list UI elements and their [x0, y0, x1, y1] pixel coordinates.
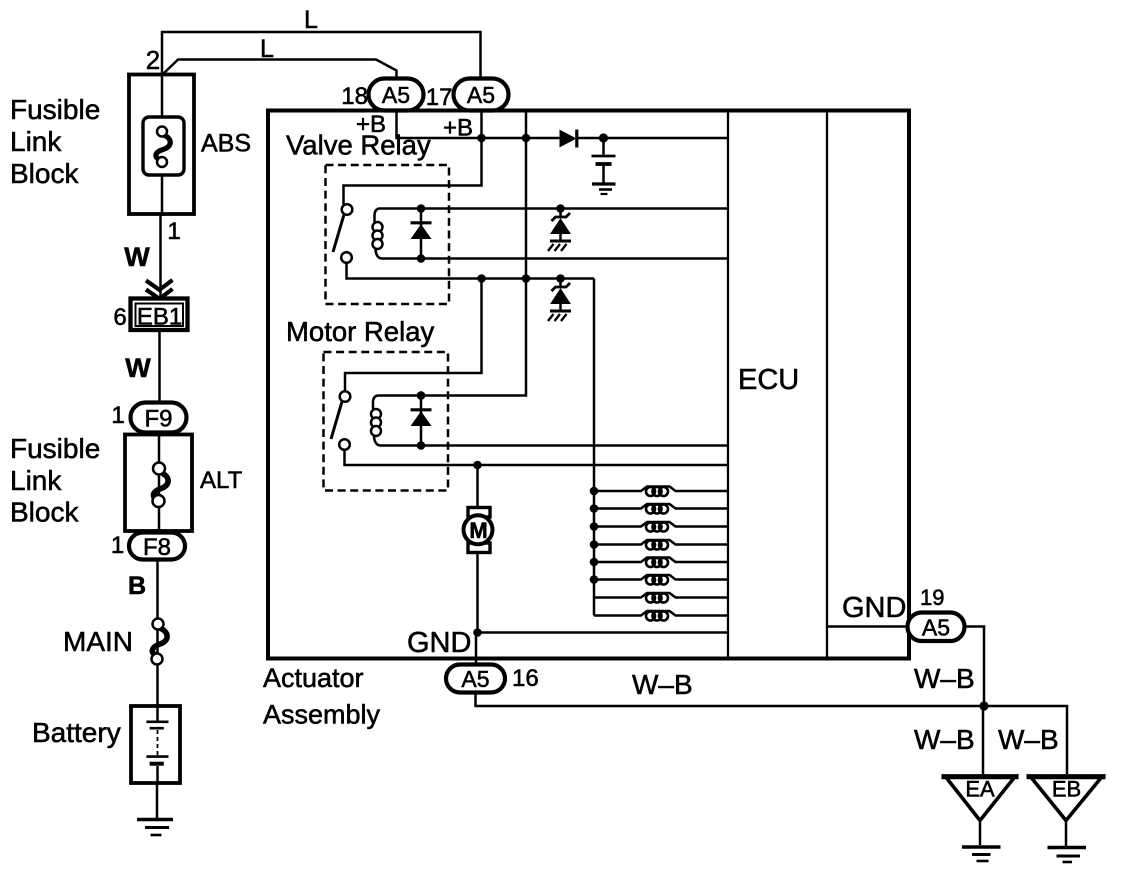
- diode D2 (valve relay): [411, 204, 432, 263]
- ground (capacitor): [592, 184, 616, 194]
- valve relay coil L1: [373, 209, 383, 259]
- svg-text:EB1: EB1: [137, 304, 182, 331]
- svg-text:M: M: [469, 518, 487, 543]
- svg-text:EB: EB: [1052, 777, 1081, 802]
- svg-text:Fusible: Fusible: [10, 94, 100, 125]
- wire diode to ECU: [578, 137, 729, 140]
- svg-text:MAIN: MAIN: [63, 626, 133, 657]
- label W-B (lower right): [998, 724, 1059, 755]
- svg-text:Motor Relay: Motor Relay: [286, 316, 434, 347]
- label Motor Relay: [286, 316, 434, 347]
- junction +B at A5-17: [477, 134, 486, 143]
- junction valve out at x526: [522, 274, 531, 283]
- wire battery to ground: [156, 783, 159, 818]
- wire motor relay output to ECU: [345, 450, 729, 465]
- junction +B at x526: [522, 134, 531, 143]
- label +B (pin 17): [443, 115, 473, 142]
- svg-text:19: 19: [920, 585, 944, 610]
- wire L lower (node 2 to connector A5-18): [162, 60, 397, 80]
- wire W (EB1 to F9): [158, 330, 161, 403]
- svg-text:ECU: ECU: [738, 364, 799, 396]
- wire GND to connector A5-16: [475, 633, 478, 666]
- zener Z2 (valve out clamp): [548, 274, 571, 321]
- connector F9 pin 1: [111, 402, 186, 433]
- label MAIN: [63, 626, 133, 657]
- solenoid SOL1: [590, 487, 728, 497]
- actuator assembly box: [268, 111, 909, 659]
- wire to EB ground: [984, 706, 1067, 774]
- zener Z1 (valve coil top clamp): [548, 204, 571, 251]
- label W (upper): [124, 242, 150, 272]
- svg-text:Block: Block: [10, 497, 79, 528]
- label Fusible Link Block (upper): [10, 94, 100, 189]
- svg-text:W–B: W–B: [914, 663, 975, 694]
- valve relay switch: [333, 204, 352, 263]
- svg-text:A5: A5: [467, 82, 495, 108]
- svg-text:W: W: [124, 242, 150, 272]
- junction GND at motor: [473, 628, 482, 637]
- fusible link block (ALT) outer box: [125, 435, 192, 532]
- label W-B (lower left): [914, 724, 975, 755]
- label +B (pin 18): [356, 111, 386, 138]
- pin 1 (ABS block bottom): [167, 218, 180, 245]
- svg-text:Valve Relay: Valve Relay: [286, 130, 431, 161]
- solenoid SOL8: [594, 611, 728, 621]
- junction W-B: [979, 701, 988, 710]
- svg-text:+B: +B: [443, 115, 473, 142]
- svg-text:1: 1: [167, 218, 180, 245]
- wire to EA ground: [982, 706, 985, 774]
- connector EB1 pin 6: [113, 299, 187, 332]
- junction motor branch: [473, 461, 482, 470]
- label L (top wire): [304, 6, 318, 34]
- wire W (ABS to EB1): [159, 216, 162, 298]
- svg-text:1: 1: [111, 402, 124, 429]
- svg-text:17: 17: [426, 84, 453, 111]
- svg-text:B: B: [128, 572, 146, 600]
- svg-text:L: L: [260, 35, 274, 63]
- svg-text:Link: Link: [10, 126, 62, 157]
- label ECU: [738, 364, 799, 396]
- svg-text:F9: F9: [144, 406, 172, 433]
- valve relay dashed box: [326, 165, 450, 304]
- solenoid SOL6: [590, 575, 728, 585]
- fuse ALT: [153, 463, 169, 508]
- junction motor coil top: [417, 391, 426, 400]
- wire motor coil bottom to ECU: [380, 444, 729, 447]
- label Actuator Assembly: [263, 663, 381, 730]
- svg-text:W: W: [125, 353, 151, 383]
- wire A5-19 to junction: [965, 627, 985, 707]
- svg-text:Battery: Battery: [32, 717, 121, 748]
- diode D1 (+B line): [560, 130, 577, 148]
- fuse MAIN: [152, 619, 168, 665]
- svg-text:1: 1: [111, 532, 124, 559]
- connector A5 pin 19: [908, 585, 965, 641]
- wire motor relay feed: [345, 279, 482, 392]
- svg-text:A5: A5: [382, 82, 410, 108]
- wire valve coil top to ECU: [379, 207, 728, 210]
- label Battery: [32, 717, 121, 748]
- label W (lower): [125, 353, 151, 383]
- wire GND (motor to ECU): [478, 631, 729, 634]
- wire W-B (A5-16 to junction): [476, 693, 985, 707]
- battery: [131, 706, 180, 783]
- svg-text:6: 6: [113, 304, 126, 331]
- label W-B (bottom center): [632, 669, 693, 700]
- wire motor branch (to motor M): [476, 465, 479, 508]
- solenoid SOL2: [590, 504, 728, 514]
- svg-text:W–B: W–B: [914, 724, 975, 755]
- wire through ALT block: [158, 433, 161, 535]
- wire through ABS block: [161, 73, 164, 216]
- label L (lower wire): [260, 35, 274, 63]
- svg-text:ABS: ABS: [201, 130, 251, 158]
- label ABS: [201, 130, 251, 158]
- wire +B feed to diode: [482, 137, 561, 140]
- svg-text:GND: GND: [407, 627, 471, 659]
- label GND (actuator): [407, 627, 471, 659]
- svg-text:Fusible: Fusible: [10, 433, 100, 464]
- wire motor M to GND: [476, 553, 479, 633]
- junction valve out at A5-17 drop: [477, 274, 486, 283]
- svg-text:Actuator: Actuator: [263, 663, 364, 693]
- svg-text:EA: EA: [965, 777, 995, 802]
- svg-text:L: L: [304, 6, 318, 34]
- motor relay coil L2: [371, 396, 381, 446]
- label Fusible Link Block (lower): [10, 433, 100, 528]
- solenoid SOL7: [594, 593, 728, 603]
- label ALT: [200, 467, 243, 494]
- svg-text:GND: GND: [842, 592, 906, 624]
- solenoid SOL5: [590, 558, 728, 568]
- solenoid SOL4: [590, 540, 728, 550]
- capacitor C1 to ground: [592, 138, 616, 183]
- svg-text:W–B: W–B: [632, 669, 693, 700]
- shield chevrons (wire joint): [146, 280, 173, 299]
- ground (battery): [137, 820, 173, 836]
- fusible link block (ABS) outer box: [129, 75, 194, 215]
- svg-text:Assembly: Assembly: [263, 700, 381, 730]
- pin 2 (ABS fusible link): [146, 45, 160, 75]
- motor M: [464, 508, 493, 553]
- label GND (ECU right): [842, 592, 906, 624]
- connector A5 pin 17: [426, 79, 509, 112]
- svg-text:Link: Link: [10, 465, 62, 496]
- svg-text:F8: F8: [143, 534, 171, 561]
- solenoid supply bus: [593, 279, 596, 616]
- svg-text:W–B: W–B: [998, 724, 1059, 755]
- ECU box: [728, 111, 827, 658]
- solenoid SOL3: [590, 522, 728, 532]
- label B: [128, 572, 146, 600]
- ground point EA: [942, 776, 1019, 861]
- junction capacitor tap: [599, 133, 608, 142]
- svg-text:A5: A5: [461, 666, 489, 692]
- svg-text:2: 2: [146, 45, 160, 75]
- svg-text:ALT: ALT: [200, 467, 243, 494]
- fuse ABS: [143, 117, 184, 175]
- wire valve relay output: [347, 263, 595, 279]
- svg-text:16: 16: [512, 665, 539, 692]
- connector A5 pin 18: [341, 79, 423, 111]
- wire +B bus (A5-18 drop): [397, 110, 482, 138]
- wire GND ECU to A5-19: [827, 625, 908, 628]
- diode D3 (motor relay): [411, 391, 432, 450]
- svg-text:18: 18: [341, 83, 368, 110]
- wire B (F8 to MAIN to battery): [156, 560, 159, 707]
- connector F8 pin 1: [111, 532, 185, 561]
- svg-text:A5: A5: [922, 615, 950, 641]
- wire L top (node 2 to connector A5-17): [162, 32, 481, 79]
- label W-B (right upper): [914, 663, 975, 694]
- connector A5 pin 16: [446, 665, 539, 693]
- wire valve-out feed to motor relay coil (x526 vertical): [378, 111, 527, 396]
- wire valve coil bottom to ECU: [381, 257, 728, 260]
- motor relay dashed box: [324, 352, 449, 491]
- motor relay switch: [331, 391, 350, 450]
- svg-text:Block: Block: [10, 158, 79, 189]
- wire A5-17 drop to valve relay switch: [344, 110, 482, 205]
- ground point EB: [1027, 776, 1106, 862]
- label Valve Relay: [286, 130, 431, 161]
